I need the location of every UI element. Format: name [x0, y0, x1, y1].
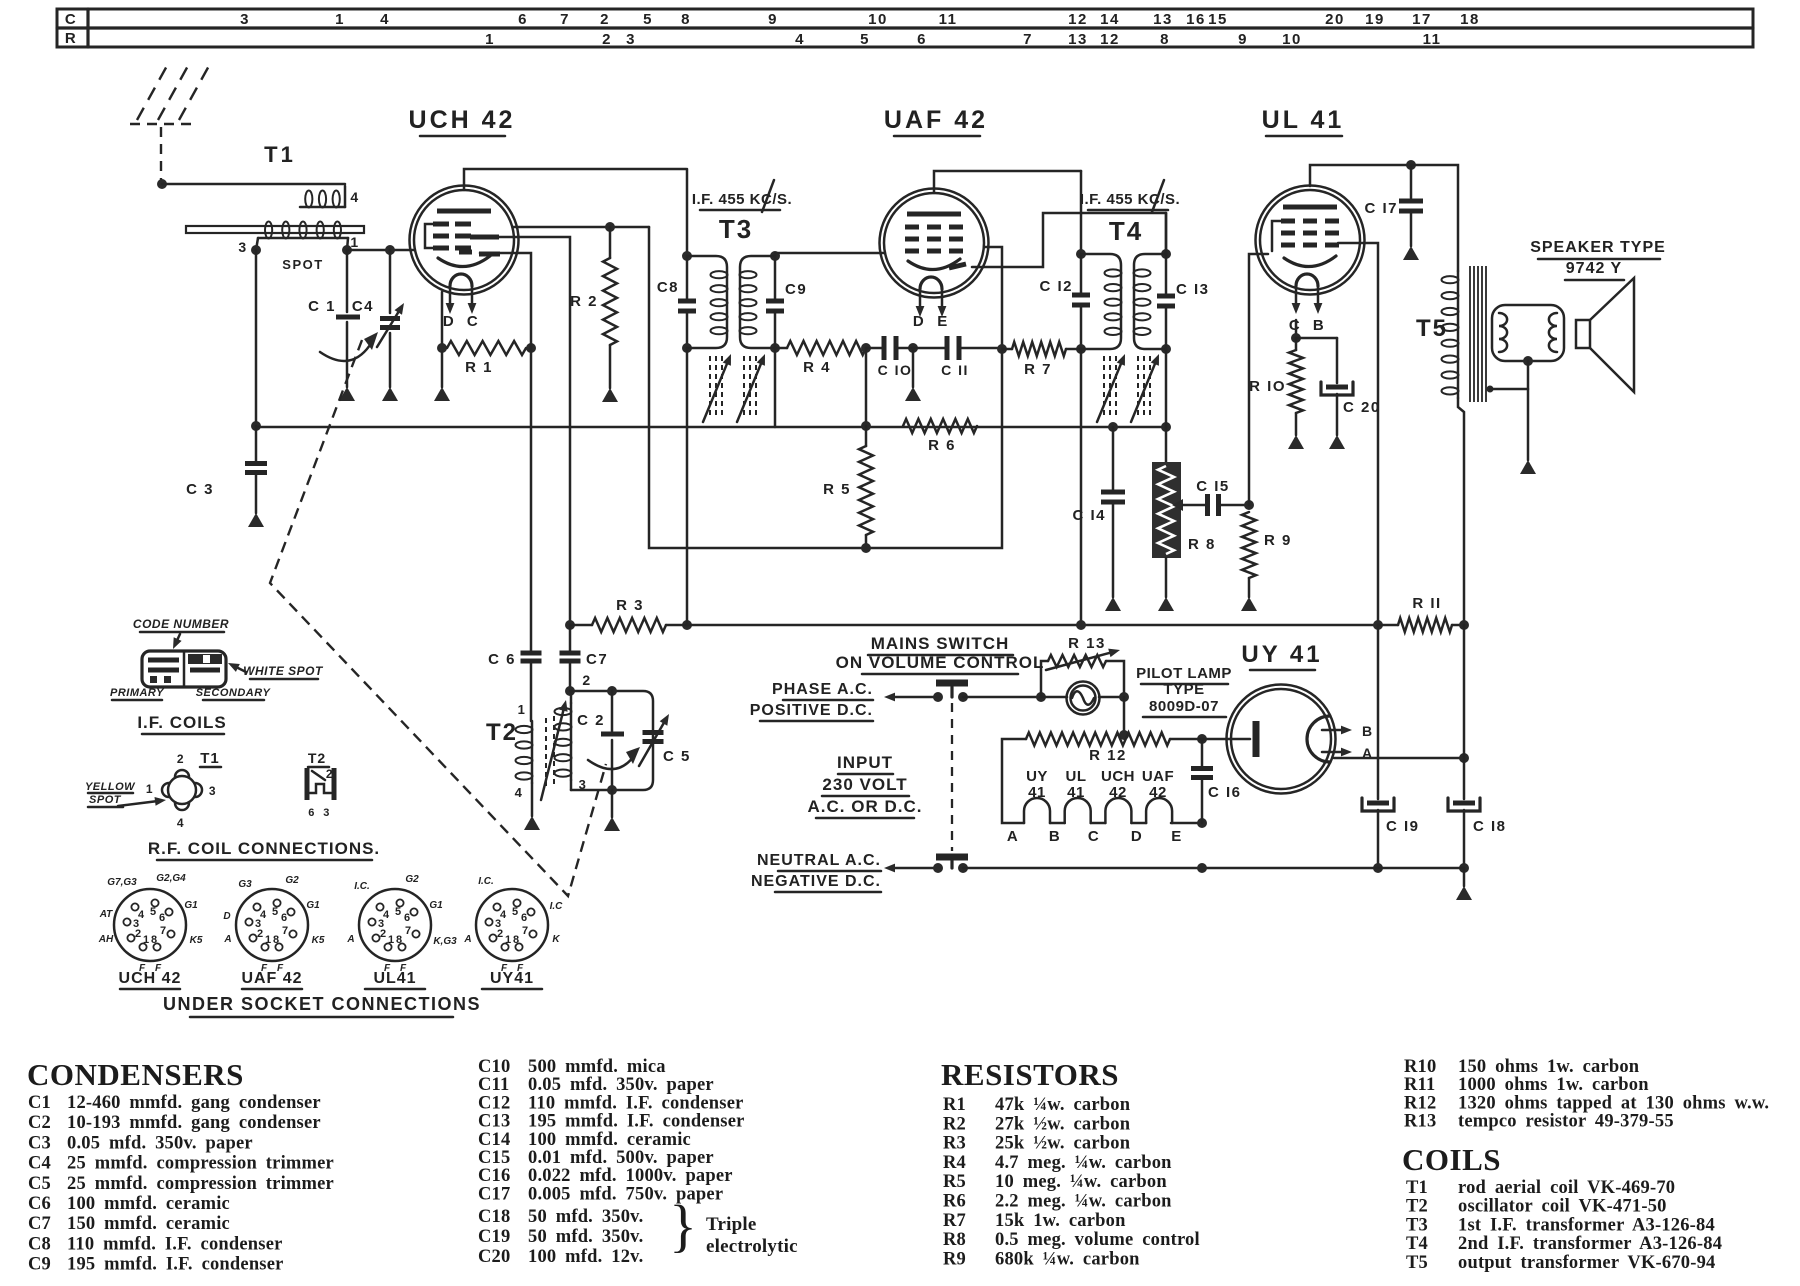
svg-text:T1: T1	[200, 750, 220, 767]
svg-text:MAINS SWITCH: MAINS SWITCH	[871, 634, 1010, 653]
capacitor C11	[941, 336, 1002, 378]
svg-text:4: 4	[515, 785, 524, 800]
svg-text:4: 4	[350, 189, 359, 205]
svg-text:tempco resistor 49-379-55: tempco resistor 49-379-55	[1458, 1112, 1674, 1132]
svg-text:195 mmfd. I.F. condenser: 195 mmfd. I.F. condenser	[528, 1112, 745, 1132]
svg-text:C13: C13	[478, 1112, 510, 1132]
resistor R3	[565, 597, 692, 632]
svg-text:12-460 mmfd. gang condenser: 12-460 mmfd. gang condenser	[67, 1093, 321, 1113]
svg-text:5: 5	[512, 906, 518, 918]
svg-text:R4: R4	[943, 1153, 966, 1173]
svg-text:14: 14	[1100, 11, 1120, 28]
svg-text:3: 3	[626, 31, 636, 48]
svg-text:9742 Y: 9742 Y	[1566, 260, 1622, 277]
IF coils code diagram	[110, 617, 324, 734]
svg-text:150 ohms 1w. carbon: 150 ohms 1w. carbon	[1458, 1057, 1640, 1077]
svg-text:C I5: C I5	[1196, 478, 1230, 495]
svg-text:AT: AT	[99, 909, 113, 920]
svg-text:C IO: C IO	[878, 362, 913, 378]
svg-text:C5: C5	[28, 1174, 51, 1194]
svg-text:6: 6	[308, 807, 316, 819]
svg-text:11: 11	[1423, 31, 1442, 48]
svg-text:UAF 42: UAF 42	[884, 106, 988, 134]
trimmer slugs T3	[703, 354, 765, 422]
svg-text:11: 11	[939, 11, 958, 28]
svg-text:output transformer VK-670-94: output transformer VK-670-94	[1458, 1253, 1716, 1273]
svg-text:8: 8	[681, 11, 691, 28]
svg-text:4: 4	[380, 11, 390, 28]
wire UCH42 anode feed	[686, 169, 689, 256]
svg-text:0.01 mfd. 500v. paper: 0.01 mfd. 500v. paper	[528, 1148, 714, 1168]
svg-text:G2: G2	[405, 874, 419, 885]
capacitor C2 gang	[577, 686, 640, 831]
heading RF coil connections	[148, 839, 380, 860]
svg-text:PILOT LAMP: PILOT LAMP	[1136, 665, 1232, 682]
wire T4 primary to HT rail	[1080, 349, 1083, 625]
svg-text:1: 1	[505, 934, 511, 946]
svg-text:R 9: R 9	[1264, 532, 1292, 549]
svg-text:K5: K5	[312, 935, 325, 946]
svg-text:NEGATIVE D.C.: NEGATIVE D.C.	[751, 873, 881, 890]
svg-text:47k ¼w. carbon: 47k ¼w. carbon	[995, 1095, 1131, 1115]
socket UAF42	[223, 875, 324, 989]
svg-text:SPEAKER TYPE: SPEAKER TYPE	[1530, 239, 1666, 256]
svg-text:C10: C10	[478, 1057, 510, 1077]
svg-text:C: C	[467, 313, 479, 330]
svg-text:25k ½w. carbon: 25k ½w. carbon	[995, 1134, 1131, 1154]
svg-text:C: C	[1088, 828, 1100, 845]
svg-text:UY 41: UY 41	[1241, 641, 1322, 668]
potentiometer R8 volume control	[1152, 349, 1216, 611]
capacitor C16	[1191, 739, 1242, 823]
capacitor C18 electrolytic	[1448, 625, 1507, 900]
svg-text:C14: C14	[478, 1130, 510, 1150]
svg-text:1: 1	[350, 234, 359, 250]
filament chain	[1007, 768, 1207, 845]
svg-text:195 mmfd. I.F. condenser: 195 mmfd. I.F. condenser	[67, 1255, 284, 1275]
svg-text:1: 1	[388, 934, 394, 946]
label pilot lamp	[1136, 665, 1232, 717]
resistor R6	[903, 419, 977, 454]
svg-text:I.C.: I.C.	[478, 876, 494, 887]
svg-text:T4: T4	[1406, 1234, 1428, 1254]
svg-text:20: 20	[1325, 11, 1345, 28]
svg-text:A: A	[1007, 828, 1019, 845]
svg-text:R II: R II	[1412, 595, 1441, 612]
svg-text:R 6: R 6	[928, 437, 956, 454]
svg-text:R 5: R 5	[823, 481, 851, 498]
transformer T3 1st IF	[682, 180, 792, 353]
svg-text:4: 4	[500, 909, 507, 921]
capacitor C5 trimmer	[639, 714, 691, 766]
wire UAF42 diode to detector	[972, 213, 1166, 267]
svg-text:G1: G1	[429, 900, 443, 911]
svg-text:UCH: UCH	[1101, 768, 1135, 785]
svg-text:17: 17	[1412, 11, 1432, 28]
resistor R12	[1002, 697, 1250, 823]
svg-text:R 13: R 13	[1068, 635, 1106, 652]
svg-text:C3: C3	[28, 1133, 51, 1153]
svg-text:8009D-07: 8009D-07	[1149, 698, 1219, 715]
wire UL41 screen to HT rail	[1338, 243, 1378, 625]
svg-text:6: 6	[518, 11, 528, 28]
svg-text:7: 7	[405, 925, 411, 937]
wire neutral rail	[963, 863, 1464, 873]
T1 coil connection	[85, 750, 221, 830]
svg-text:D: D	[1131, 828, 1143, 845]
svg-text:C4: C4	[28, 1154, 51, 1174]
svg-text:9: 9	[1238, 31, 1248, 48]
svg-text:T5: T5	[1406, 1253, 1428, 1273]
svg-text:100 mmfd. ceramic: 100 mmfd. ceramic	[67, 1194, 230, 1214]
condenser list column 1	[28, 1093, 334, 1275]
svg-text:18: 18	[1460, 11, 1480, 28]
wire screen UCH42	[649, 227, 1002, 548]
svg-text:SPOT: SPOT	[89, 794, 122, 806]
svg-text:4: 4	[138, 909, 145, 921]
svg-text:15: 15	[1208, 11, 1228, 28]
svg-text:R8: R8	[943, 1230, 966, 1250]
svg-text:D: D	[223, 911, 230, 922]
svg-text:POSITIVE D.C.: POSITIVE D.C.	[750, 702, 873, 719]
svg-text:C II: C II	[941, 362, 969, 378]
svg-text:4: 4	[260, 909, 267, 921]
svg-text:UNDER SOCKET CONNECTIONS: UNDER SOCKET CONNECTIONS	[163, 994, 481, 1014]
wire triode anode to C7	[491, 237, 570, 625]
svg-text:T2: T2	[308, 750, 326, 766]
capacitor C4 trimmer	[352, 245, 404, 401]
svg-text:1: 1	[143, 934, 149, 946]
resistor R1	[434, 292, 536, 401]
svg-text:1st I.F. transformer A3-126-84: 1st I.F. transformer A3-126-84	[1458, 1215, 1715, 1235]
svg-text:K5: K5	[190, 935, 203, 946]
svg-text:1: 1	[265, 934, 271, 946]
svg-text:R5: R5	[943, 1172, 966, 1192]
svg-text:SPOT: SPOT	[282, 257, 323, 272]
svg-text:100 mmfd. ceramic: 100 mmfd. ceramic	[528, 1130, 691, 1150]
svg-text:T2: T2	[1406, 1197, 1428, 1217]
svg-text:50 mfd. 350v.: 50 mfd. 350v.	[528, 1227, 643, 1247]
svg-text:R1: R1	[943, 1095, 966, 1115]
svg-text:G3: G3	[238, 879, 252, 890]
svg-text:16: 16	[1186, 11, 1206, 28]
svg-text:27k ½w. carbon: 27k ½w. carbon	[995, 1114, 1131, 1134]
svg-text:NEUTRAL A.C.: NEUTRAL A.C.	[757, 852, 881, 869]
antenna	[130, 64, 210, 189]
svg-text:G1: G1	[306, 900, 320, 911]
svg-text:230 VOLT: 230 VOLT	[822, 775, 907, 794]
svg-text:19: 19	[1365, 11, 1385, 28]
svg-text:2: 2	[177, 752, 185, 766]
svg-text:R10: R10	[1404, 1057, 1436, 1077]
trimmer slugs T4	[1097, 354, 1159, 422]
svg-text:6: 6	[281, 912, 287, 924]
socket UCH42	[98, 873, 203, 989]
svg-text:T3: T3	[1406, 1215, 1428, 1235]
svg-text:D: D	[443, 313, 455, 330]
svg-text:680k ¼w. carbon: 680k ¼w. carbon	[995, 1249, 1140, 1269]
tube UL41	[1256, 106, 1412, 334]
svg-text:G2,G4: G2,G4	[156, 873, 186, 884]
svg-text:G7,G3: G7,G3	[107, 877, 137, 888]
svg-text:UCH 42: UCH 42	[119, 970, 182, 987]
svg-text:AH: AH	[98, 934, 114, 945]
socket UY41	[463, 876, 563, 989]
svg-text:7: 7	[160, 925, 166, 937]
svg-text:R 7: R 7	[1024, 361, 1052, 378]
resistor R7	[997, 342, 1081, 378]
svg-text:2: 2	[600, 11, 610, 28]
svg-text:G2: G2	[285, 875, 299, 886]
svg-text:12: 12	[1068, 11, 1088, 28]
svg-text:INPUT: INPUT	[837, 753, 893, 772]
resistor R13 tempco	[1036, 635, 1124, 702]
capacitor C7	[560, 625, 609, 691]
svg-text:C19: C19	[478, 1227, 510, 1247]
svg-text:C20: C20	[478, 1247, 510, 1267]
svg-text:I.C.: I.C.	[354, 881, 370, 892]
capacitor C12	[1039, 171, 1090, 354]
svg-text:UCH 42: UCH 42	[409, 106, 516, 134]
svg-text:2nd I.F. transformer A3-126-84: 2nd I.F. transformer A3-126-84	[1458, 1234, 1722, 1254]
svg-text:C I9: C I9	[1386, 818, 1420, 835]
svg-text:R6: R6	[943, 1192, 966, 1212]
ground cathode UAF42	[896, 343, 947, 401]
svg-text:C8: C8	[657, 279, 679, 296]
svg-text:3: 3	[240, 11, 250, 28]
svg-text:1: 1	[146, 782, 154, 796]
svg-text:C12: C12	[478, 1093, 510, 1113]
resistor R5	[823, 348, 873, 553]
svg-text:R 12: R 12	[1089, 747, 1127, 764]
svg-text:5: 5	[643, 11, 653, 28]
svg-text:I.F. COILS: I.F. COILS	[137, 713, 226, 732]
svg-text:110 mmfd. I.F. condenser: 110 mmfd. I.F. condenser	[67, 1234, 283, 1254]
resistor R10	[1249, 320, 1304, 449]
svg-text:B: B	[1362, 723, 1374, 739]
label phase	[750, 681, 873, 721]
svg-text:5: 5	[272, 906, 278, 918]
svg-text:B: B	[1313, 317, 1325, 334]
capacitor C6	[488, 348, 541, 721]
svg-text:1320 ohms tapped at 130 ohms w: 1320 ohms tapped at 130 ohms w.w.	[1458, 1093, 1769, 1113]
tube UY41	[1227, 641, 1374, 794]
resistor R4	[775, 341, 871, 376]
svg-text:SECONDARY: SECONDARY	[196, 687, 272, 699]
svg-text:5: 5	[860, 31, 870, 48]
svg-text:C 3: C 3	[186, 481, 214, 498]
svg-text:C1: C1	[28, 1093, 51, 1113]
svg-text:R IO: R IO	[1249, 378, 1286, 395]
svg-text:3: 3	[323, 807, 331, 819]
svg-text:C I7: C I7	[1364, 200, 1398, 217]
svg-text:D: D	[913, 313, 925, 330]
svg-text:0.022 mfd. 1000v. paper: 0.022 mfd. 1000v. paper	[528, 1166, 733, 1186]
svg-text:2: 2	[582, 672, 591, 688]
svg-text:C2: C2	[28, 1113, 51, 1133]
svg-text:T1: T1	[264, 142, 296, 167]
svg-text:R 1: R 1	[465, 359, 493, 376]
svg-text:PRIMARY: PRIMARY	[110, 687, 165, 699]
resistor R2	[513, 222, 649, 402]
svg-text:I.F. 455 KC/S.: I.F. 455 KC/S.	[1080, 191, 1180, 208]
svg-text:rod aerial coil VK-469-70: rod aerial coil VK-469-70	[1458, 1178, 1675, 1198]
wire HT rail	[687, 624, 1378, 627]
capacitor C17	[1364, 160, 1423, 260]
svg-text:T4: T4	[1109, 216, 1143, 246]
svg-text:C I6: C I6	[1208, 784, 1242, 801]
svg-text:UL 41: UL 41	[1262, 106, 1345, 134]
svg-text:UL: UL	[1066, 768, 1087, 785]
svg-text:0.05 mfd. 350v. paper: 0.05 mfd. 350v. paper	[528, 1075, 714, 1095]
svg-text:10: 10	[868, 11, 888, 28]
svg-text:A: A	[463, 934, 471, 945]
svg-text:K,G3: K,G3	[433, 936, 457, 947]
speaker	[1530, 239, 1666, 392]
svg-text:4.7 meg. ¼w. carbon: 4.7 meg. ¼w. carbon	[995, 1153, 1172, 1173]
wire detector to volume control	[1165, 213, 1168, 254]
wire T3 to UAF42 grid	[775, 252, 884, 255]
svg-text:R2: R2	[943, 1114, 966, 1134]
svg-text:R: R	[65, 30, 77, 47]
heading under socket connections	[163, 994, 481, 1017]
svg-text:1: 1	[485, 31, 495, 48]
svg-text:6: 6	[404, 912, 410, 924]
svg-text:RESISTORS: RESISTORS	[941, 1057, 1119, 1092]
svg-text:500 mmfd. mica: 500 mmfd. mica	[528, 1057, 666, 1077]
svg-text:4: 4	[177, 816, 185, 830]
svg-text:1000 ohms 1w. carbon: 1000 ohms 1w. carbon	[1458, 1075, 1649, 1095]
svg-text:4: 4	[383, 909, 390, 921]
svg-text:E: E	[937, 313, 949, 330]
svg-text:C8: C8	[28, 1234, 51, 1254]
resistor R9	[1241, 500, 1292, 611]
label neutral	[751, 852, 881, 892]
resistor R11	[1378, 595, 1469, 632]
svg-text:E: E	[1171, 828, 1183, 845]
svg-text:C7: C7	[586, 651, 608, 668]
svg-text:2.2 meg. ¼w. carbon: 2.2 meg. ¼w. carbon	[995, 1192, 1172, 1212]
svg-text:T3: T3	[719, 214, 753, 244]
svg-text:1: 1	[335, 11, 345, 28]
svg-text:A: A	[346, 934, 354, 945]
svg-text:150 mmfd. ceramic: 150 mmfd. ceramic	[67, 1214, 230, 1234]
svg-text:13: 13	[1068, 31, 1088, 48]
svg-text:8: 8	[273, 934, 279, 946]
transformer T5 output	[1411, 165, 1564, 625]
svg-text:UAF 42: UAF 42	[241, 970, 302, 987]
svg-text:C 2: C 2	[577, 712, 605, 729]
svg-text:0.05 mfd. 350v. paper: 0.05 mfd. 350v. paper	[67, 1133, 253, 1153]
svg-text:I.F. 455 KC/S.: I.F. 455 KC/S.	[692, 191, 792, 208]
svg-text:6: 6	[159, 912, 165, 924]
svg-text:0.5 meg. volume control: 0.5 meg. volume control	[995, 1230, 1200, 1250]
wire volume to UL41 grid	[1249, 254, 1268, 505]
svg-text:R 4: R 4	[803, 359, 831, 376]
svg-text:8: 8	[151, 934, 157, 946]
capacitor C9	[766, 256, 807, 427]
svg-text:7: 7	[522, 925, 528, 937]
svg-text:10 meg. ¼w. carbon: 10 meg. ¼w. carbon	[995, 1172, 1167, 1192]
svg-text:100 mfd. 12v.: 100 mfd. 12v.	[528, 1247, 643, 1267]
capacitor C10	[866, 336, 912, 378]
svg-text:3: 3	[209, 784, 217, 798]
wire UY41 cathode to C18 node	[1334, 753, 1469, 763]
transformer T4 2nd IF	[1080, 180, 1180, 354]
svg-text:C9: C9	[785, 281, 807, 298]
svg-text:UAF: UAF	[1142, 768, 1174, 785]
gang tuning dashed link	[270, 340, 606, 896]
svg-text:7: 7	[560, 11, 570, 28]
svg-text:A: A	[223, 934, 231, 945]
svg-text:I.C: I.C	[550, 901, 564, 912]
svg-text:7: 7	[282, 925, 288, 937]
resistor list column 1	[943, 1095, 1200, 1269]
svg-text:C 1: C 1	[308, 298, 336, 315]
svg-text:R 2: R 2	[570, 293, 598, 310]
svg-text:C4: C4	[352, 298, 374, 315]
ruler band	[57, 9, 1753, 48]
svg-text:C18: C18	[478, 1207, 510, 1227]
capacitor C3	[186, 250, 267, 527]
svg-text:UY41: UY41	[490, 970, 534, 987]
switch neutral	[884, 857, 968, 873]
svg-text:C9: C9	[28, 1255, 51, 1275]
svg-text:COILS: COILS	[1402, 1142, 1501, 1177]
svg-text:6: 6	[521, 912, 527, 924]
svg-text:15k 1w. carbon: 15k 1w. carbon	[995, 1211, 1126, 1231]
wire AVC rail	[256, 426, 1166, 429]
switch phase	[884, 683, 1041, 851]
svg-text:8: 8	[396, 934, 402, 946]
svg-text:9: 9	[768, 11, 778, 28]
svg-text:C17: C17	[478, 1184, 510, 1204]
svg-text:4: 4	[795, 31, 805, 48]
svg-text:R11: R11	[1404, 1075, 1435, 1095]
svg-text:PHASE A.C.: PHASE A.C.	[772, 681, 873, 698]
coils list	[1406, 1178, 1722, 1273]
svg-text:K: K	[552, 934, 560, 945]
svg-text:25 mmfd. compression trimmer: 25 mmfd. compression trimmer	[67, 1174, 334, 1194]
svg-text:CODE NUMBER: CODE NUMBER	[133, 617, 229, 631]
svg-text:C I8: C I8	[1473, 818, 1507, 835]
svg-text:C 5: C 5	[663, 748, 691, 765]
svg-text:7: 7	[1023, 31, 1033, 48]
svg-text:YELLOW: YELLOW	[85, 781, 136, 793]
capacitor C15	[1183, 478, 1249, 516]
label mains switch	[836, 634, 1045, 674]
svg-text:T2: T2	[486, 719, 518, 746]
svg-text:R3: R3	[943, 1134, 966, 1154]
svg-text:R 3: R 3	[616, 597, 644, 614]
socket UL41	[346, 874, 457, 989]
capacitor C8	[657, 251, 696, 348]
svg-text:Triple: Triple	[706, 1214, 756, 1235]
svg-text:R.F. COIL CONNECTIONS.: R.F. COIL CONNECTIONS.	[148, 839, 380, 858]
svg-text:8: 8	[513, 934, 519, 946]
resistor list column 2	[1404, 1057, 1769, 1132]
svg-text:110 mmfd. I.F. condenser: 110 mmfd. I.F. condenser	[528, 1093, 744, 1113]
wire triode grid to C6	[480, 253, 531, 348]
svg-text:T1: T1	[1406, 1178, 1428, 1198]
transformer T2 oscillator	[486, 700, 587, 830]
svg-text:WHITE SPOT: WHITE SPOT	[243, 664, 324, 678]
transformer T1 rod aerial coil	[162, 142, 414, 272]
svg-text:6: 6	[917, 31, 927, 48]
svg-text:C15: C15	[478, 1148, 510, 1168]
pilot lamp	[1041, 682, 1129, 715]
svg-text:C 20: C 20	[1343, 399, 1381, 416]
